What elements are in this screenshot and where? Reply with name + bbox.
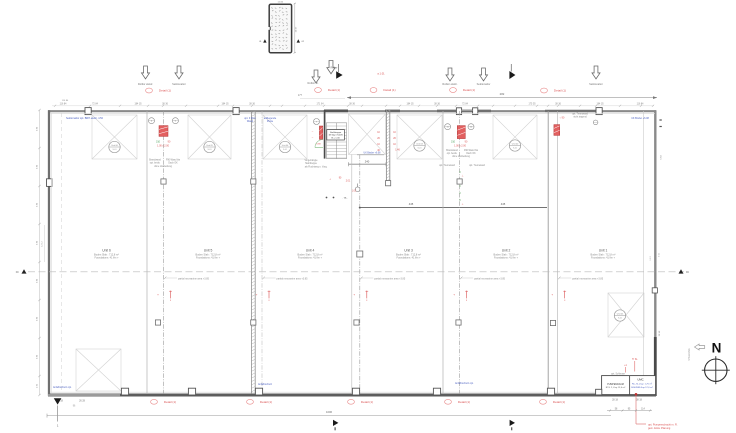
- right inner face line: [643, 111, 645, 394]
- entrance arrow A6: [479, 68, 487, 81]
- party wall B axis: [261, 111, 263, 394]
- level mark A: [157, 291, 172, 302]
- svg-text:S-01: S-01: [208, 149, 212, 151]
- door tag bottom: [445, 399, 470, 404]
- svg-text:nicht tragend: nicht tragend: [573, 116, 587, 119]
- door jamb T3: [596, 108, 602, 115]
- overall top dimension: [298, 92, 657, 99]
- door tag bottom: [151, 399, 176, 404]
- svg-text:Foundations: 41 lfm +: Foundations: 41 lfm +: [396, 257, 421, 260]
- svg-text:opt. beids.: opt. beids.: [447, 152, 458, 155]
- svg-text:Unit 3: Unit 3: [404, 249, 413, 253]
- door jamb plant room: [596, 389, 602, 395]
- stair note box: [327, 130, 345, 140]
- building outer wall bottom: [48, 393, 656, 396]
- door tag D1: [146, 88, 171, 93]
- svg-text:Unit 05: Unit 05: [206, 144, 213, 147]
- party wall A axis: [163, 111, 165, 394]
- top fine dim line with ticks: [52, 105, 654, 107]
- red ticks near core left: [312, 131, 314, 140]
- svg-text:28 18: 28 18: [612, 399, 618, 401]
- svg-text:38 36: 38 36: [249, 104, 255, 106]
- grid bubble A2: [172, 118, 178, 124]
- column B2: [188, 388, 195, 395]
- svg-text:Unit 6: Unit 6: [102, 249, 111, 253]
- svg-text:1.00 х 2.00: 1.00 х 2.00: [454, 144, 466, 147]
- column C low: [456, 320, 461, 325]
- window jamb right wall: [652, 288, 657, 293]
- svg-text:Rolltor el.: Rolltor el.: [308, 81, 319, 85]
- building outer wall left: [48, 110, 50, 396]
- svg-text:partial mezzanine area +3.85: partial mezzanine area +3.85: [474, 278, 506, 281]
- key plan dimension: [278, 2, 298, 54]
- red level marks plant: [624, 359, 638, 373]
- skylight box unit1: [608, 293, 644, 337]
- svg-text:38 18: 38 18: [636, 399, 642, 401]
- line below corebox: [357, 154, 384, 156]
- svg-text:Detail (1): Detail (1): [553, 400, 565, 404]
- svg-text:Rolltor elektr.: Rolltor elektr.: [442, 82, 457, 86]
- fire wall marker A: [159, 126, 168, 137]
- svg-text:Sektionaltor opt. BRH elektr.: Sektionaltor opt. BRH elektr. 4.50: [66, 117, 104, 120]
- svg-text:+: +: [157, 292, 159, 296]
- svg-text:Foundations: 41 lfm +: Foundations: 41 lfm +: [494, 257, 519, 260]
- svg-text:opt. Pumpenschacht m. R.: opt. Pumpenschacht m. R.: [648, 423, 678, 426]
- svg-text:Wand: Wand: [247, 120, 254, 123]
- svg-text:UMC: UMC: [637, 377, 643, 381]
- svg-text:72 84: 72 84: [462, 104, 468, 106]
- column B mid: [251, 179, 256, 184]
- svg-text:Dach OK: Dach OK: [168, 163, 178, 165]
- unit label Unit 4: [298, 249, 323, 260]
- svg-text:Rolltor: Rolltor: [331, 67, 338, 70]
- svg-text:171 64: 171 64: [316, 104, 324, 106]
- svg-text:Anfahrschutz: Anfahrschutz: [258, 383, 273, 386]
- svg-text:opt. Schleuse: opt. Schleuse: [611, 373, 626, 376]
- svg-text:S-01: S-01: [418, 148, 422, 150]
- grid bubble core: [314, 119, 320, 125]
- party wall core-south line: [351, 155, 353, 395]
- mezzanine note: [164, 277, 210, 281]
- dim text C: [451, 141, 468, 148]
- skylight box unit2: [493, 115, 537, 159]
- column B5: [433, 388, 440, 395]
- svg-text:116 84: 116 84: [60, 104, 68, 106]
- plant rooms outline: [602, 376, 656, 395]
- svg-text:1.46: 1.46: [395, 150, 400, 152]
- column B low: [251, 320, 256, 325]
- section marker 1 bottom-left: [54, 398, 62, 427]
- unit label Unit 3: [396, 249, 421, 260]
- dim text A: [156, 141, 171, 148]
- level mark C: [453, 291, 468, 302]
- svg-text:Detail (1): Detail (1): [164, 400, 176, 404]
- compass: [702, 356, 730, 384]
- column A mid: [161, 179, 166, 184]
- svg-text:Detail (1): Detail (1): [328, 88, 340, 92]
- key plan left marker: [259, 39, 267, 43]
- svg-text:116 84: 116 84: [637, 104, 645, 106]
- svg-text:26 28: 26 28: [79, 400, 85, 402]
- fire wall marker D: [554, 125, 560, 136]
- svg-text:S-01: S-01: [618, 318, 622, 320]
- svg-text:Dach OK: Dach OK: [466, 153, 476, 155]
- svg-text:29.37: 29.37: [296, 26, 298, 32]
- svg-text:partial mezzanine area +3.85: partial mezzanine area +3.85: [572, 278, 604, 281]
- top wall dark segment over core: [324, 110, 348, 113]
- wall D note: [572, 113, 589, 119]
- svg-text:⊥: ⊥: [329, 178, 331, 181]
- door tag D3b: [450, 88, 475, 93]
- party wall B hatched: [251, 111, 255, 394]
- svg-text:12.12: 12.12: [42, 240, 44, 246]
- svg-text:BGF/BRI-Kap 57,6 m²: BGF/BRI-Kap 57,6 m²: [631, 386, 653, 389]
- skylight box unit5: [188, 115, 231, 159]
- svg-text:Foundations: 41 lfm +: Foundations: 41 lfm +: [196, 257, 221, 260]
- core bottom dim: [349, 159, 387, 166]
- svg-text:Vorgehängte: Vorgehängte: [304, 159, 318, 162]
- svg-text:partial mezzanine area +3.85: partial mezzanine area +3.85: [277, 278, 309, 281]
- door tag bottom: [247, 399, 272, 404]
- centre line left marker: [16, 269, 27, 274]
- key plan right marker: [297, 39, 305, 43]
- column D low: [550, 320, 555, 325]
- svg-text:1.00 х 2.00: 1.00 х 2.00: [157, 144, 169, 147]
- left dimension column: [36, 109, 44, 396]
- svg-text:184 35: 184 35: [406, 104, 414, 106]
- red note core right: [393, 132, 400, 152]
- mezzanine note: [460, 277, 506, 281]
- top wall inner face: [50, 112, 655, 114]
- svg-text:Anfahrschutz opt.: Anfahrschutz opt.: [53, 386, 72, 389]
- svg-text:8: 8: [170, 300, 171, 302]
- door tag D3: [370, 88, 395, 93]
- svg-text:Sektionaltor: Sektionaltor: [477, 82, 491, 86]
- dark dots below core: [326, 197, 348, 200]
- right wall dark segment: [654, 337, 657, 396]
- door tag bottom: [540, 399, 565, 404]
- north key arrow: [695, 344, 705, 350]
- svg-text:opt. Trennwand: opt. Trennwand: [469, 164, 486, 167]
- fire door marker core: [319, 126, 322, 139]
- svg-text:+: +: [551, 292, 553, 296]
- section marker 1 bottom: [333, 420, 338, 431]
- top wall dark segment core-right: [385, 110, 400, 113]
- wall C lower note: [439, 164, 486, 167]
- svg-text:ohne Verkleidung: ohne Verkleidung: [452, 155, 470, 158]
- building outer wall right: [654, 110, 656, 396]
- svg-text:240: 240: [365, 159, 370, 163]
- right wall outer dims: [650, 120, 663, 336]
- svg-text:N: N: [712, 341, 722, 356]
- skylight box unit4: [263, 115, 307, 159]
- column core-south low: [354, 320, 359, 325]
- svg-text:12.66: 12.66: [278, 2, 284, 4]
- node circle below core: [355, 184, 360, 192]
- svg-text:⊥: ⊥: [461, 203, 463, 206]
- party wall core-south axis: [359, 155, 361, 395]
- svg-text:S-01: S-01: [283, 149, 287, 151]
- core left wall: [324, 110, 326, 159]
- mezzanine note: [262, 277, 308, 281]
- svg-text:Detail (1): Detail (1): [361, 400, 373, 404]
- svg-text:UK Binder +6.08: UK Binder +6.08: [364, 152, 382, 155]
- section marker 2 top: [509, 64, 515, 79]
- svg-text:· 75 ·: · 75 ·: [342, 197, 348, 200]
- svg-text:Detail (1): Detail (1): [159, 89, 171, 93]
- svg-text:ohne Verkleidung: ohne Verkleidung: [154, 165, 172, 168]
- svg-text:8: 8: [466, 300, 467, 302]
- svg-text:+: +: [353, 292, 355, 296]
- door tag bottom: [348, 399, 373, 404]
- level mark B: [256, 291, 271, 302]
- mezzanine edge line: [359, 202, 547, 208]
- bottom chain dims: [607, 408, 652, 411]
- svg-text:S-01: S-01: [113, 149, 117, 151]
- party wall D face: [557, 111, 559, 394]
- svg-text:Foundations: 41 lfm +: Foundations: 41 lfm +: [94, 257, 119, 260]
- svg-text:Unit 1: Unit 1: [599, 249, 608, 253]
- svg-text:Foundations: 41 lfm +: Foundations: 41 lfm +: [591, 257, 616, 260]
- svg-text:Detail (1): Detail (1): [463, 88, 475, 92]
- centre line: [28, 271, 684, 273]
- key plan outline: [268, 4, 292, 53]
- svg-text:UK Binder +6.08: UK Binder +6.08: [631, 117, 649, 120]
- mezzanine note: [558, 277, 604, 281]
- svg-text:72 84: 72 84: [92, 104, 98, 106]
- svg-text:Anfahrschutz opt.: Anfahrschutz opt.: [455, 382, 474, 385]
- svg-text:Pfette: Pfette: [267, 120, 274, 123]
- bottom wall inner face: [50, 391, 655, 393]
- svg-text:Stahltreppe: Stahltreppe: [305, 162, 317, 165]
- overall bottom dimension: [47, 410, 611, 418]
- door tag D2: [315, 88, 340, 93]
- core note left: [304, 159, 327, 168]
- svg-text:Unit 03: Unit 03: [416, 142, 423, 145]
- svg-text:PUMPENRAUM: PUMPENRAUM: [607, 383, 624, 386]
- red note stairwell left: [377, 132, 380, 152]
- party wall C axis: [459, 111, 461, 394]
- svg-text:gem. Entw. Planung: gem. Entw. Planung: [648, 427, 671, 430]
- grid bubble A1: [149, 118, 155, 124]
- level mark core-south: [353, 291, 368, 302]
- svg-text:177: 177: [298, 94, 303, 97]
- column B3: [255, 388, 262, 395]
- svg-text:8: 8: [366, 300, 367, 302]
- column B6: [547, 388, 554, 395]
- svg-text:Stahltreppe: Stahltreppe: [330, 131, 342, 134]
- svg-text:18 Stg 17,6/26: 18 Stg 17,6/26: [328, 134, 343, 137]
- red reference leader: [635, 393, 678, 430]
- svg-text:184 35: 184 35: [596, 104, 604, 106]
- smoke vent box bottom-left: [76, 349, 121, 391]
- svg-text:8: 8: [269, 300, 270, 302]
- svg-text:184 35: 184 35: [134, 104, 142, 106]
- party wall C line: [442, 111, 444, 394]
- door swing C marks: [458, 172, 464, 206]
- top tick dimensions: [60, 104, 645, 106]
- mezzanine note: [360, 277, 406, 281]
- svg-text:Detail (1): Detail (1): [383, 88, 395, 92]
- svg-text:opt. Trennwand: opt. Trennwand: [439, 164, 456, 167]
- unit label Unit 5: [196, 249, 221, 260]
- svg-text:Unit 06: Unit 06: [111, 144, 118, 147]
- entrance arrow A4: [327, 61, 335, 74]
- door jamb T1: [85, 108, 91, 115]
- svg-text:2.01: 2.01: [346, 181, 351, 183]
- stair flight: [326, 123, 346, 159]
- svg-text:Detail (1): Detail (1): [260, 400, 272, 404]
- plant room right label UMC: [631, 377, 653, 388]
- svg-text:Unit 2: Unit 2: [502, 249, 511, 253]
- svg-text:+: +: [453, 292, 455, 296]
- svg-text:310: 310: [156, 141, 161, 144]
- svg-text:Unit 5: Unit 5: [204, 249, 213, 253]
- svg-text:8: 8: [564, 300, 565, 302]
- svg-text:Foundations: 41 lfm +: Foundations: 41 lfm +: [298, 257, 323, 260]
- svg-text:partial mezzanine area +3.85: partial mezzanine area +3.85: [374, 278, 406, 281]
- svg-text:38 98: 38 98: [659, 330, 661, 336]
- svg-text:Detail (1): Detail (1): [458, 400, 470, 404]
- building outer wall top: [48, 110, 656, 112]
- centre line right marker: [679, 269, 690, 274]
- door jamb B1: [121, 388, 128, 395]
- entrance arrow A7: [592, 66, 600, 79]
- plant room left label: [606, 383, 626, 389]
- svg-text:F90 Wand bis: F90 Wand bis: [464, 150, 479, 152]
- svg-text:a 1.01: a 1.01: [377, 72, 385, 76]
- wall C note: [446, 149, 479, 158]
- svg-text:Unit 01: Unit 01: [617, 312, 624, 315]
- svg-text:Brandwand: Brandwand: [446, 149, 458, 152]
- door jamb left wall: [47, 179, 52, 187]
- svg-text:445: 445: [409, 202, 414, 206]
- svg-text:opt. Trennwand: opt. Trennwand: [572, 113, 589, 116]
- door swing core: [315, 140, 323, 148]
- grid bubble D: [593, 120, 598, 125]
- svg-text:38 36: 38 36: [555, 104, 561, 106]
- svg-text:·: ·: [458, 187, 459, 191]
- svg-text:1006: 1006: [326, 410, 332, 414]
- svg-text:38 36: 38 36: [349, 104, 355, 106]
- section marker 1 top: [336, 64, 342, 79]
- svg-text:116 84: 116 84: [62, 100, 69, 102]
- entrance arrow A2: [175, 66, 183, 79]
- grid bubble C2: [468, 124, 474, 130]
- svg-text:S-01: S-01: [513, 148, 517, 150]
- grid bubble C1: [445, 124, 451, 130]
- svg-text:38 36: 38 36: [162, 104, 168, 106]
- svg-text:Rü.-St.-Kap: 1,75 m²: Rü.-St.-Kap: 1,75 m²: [632, 383, 652, 386]
- svg-text:310: 310: [451, 141, 456, 144]
- svg-text:Rolltor elektr.: Rolltor elektr.: [138, 82, 153, 86]
- svg-text:STELLUNG: STELLUNG: [689, 348, 691, 360]
- door tag D4: [541, 88, 566, 93]
- svg-text:Detail (1): Detail (1): [554, 89, 566, 93]
- level mark D: [551, 291, 566, 302]
- svg-text:+: +: [256, 292, 258, 296]
- door jamb T2: [233, 108, 239, 115]
- column B4: [352, 388, 359, 395]
- skylight box core: [349, 114, 386, 155]
- svg-text:BTG 2, Kap 13,6 m²: BTG 2, Kap 13,6 m²: [606, 386, 626, 389]
- svg-text:Brandwand: Brandwand: [149, 159, 161, 162]
- party wall A line: [146, 111, 148, 394]
- column core-right-wall end: [386, 181, 391, 186]
- entrance arrow A3: [312, 70, 320, 83]
- column core-south mid: [357, 251, 363, 257]
- svg-text:opt. beids.: opt. beids.: [150, 162, 161, 165]
- left inner dashed line: [61, 113, 63, 393]
- svg-text:⊥: ⊥: [461, 175, 463, 178]
- party wall D line: [547, 111, 549, 394]
- red marks below core: [329, 178, 357, 193]
- top wall dark segment unit3: [437, 110, 491, 113]
- svg-text:282: 282: [500, 92, 505, 96]
- svg-text:Sektionaltor: Sektionaltor: [172, 82, 186, 86]
- svg-text:38 36: 38 36: [434, 104, 440, 106]
- svg-text:TI SL: TI SL: [632, 359, 638, 361]
- entrance arrow A5: [446, 68, 454, 81]
- svg-text:Sektionaltor: Sektionaltor: [589, 82, 603, 86]
- skylight box unit3: [397, 115, 442, 159]
- svg-text:F90 Wand bis: F90 Wand bis: [166, 160, 181, 162]
- svg-text:als Fluchtweg n. Vorg.: als Fluchtweg n. Vorg.: [305, 165, 328, 168]
- svg-text:1.01: 1.01: [352, 191, 357, 193]
- bottom wall light segment left: [48, 394, 120, 396]
- svg-text:Unit 4: Unit 4: [306, 249, 315, 253]
- top wall dark segment unit1: [545, 110, 600, 112]
- svg-text:Unit 04: Unit 04: [282, 144, 289, 147]
- unit label Unit 6: [94, 249, 119, 260]
- svg-text:partial mezzanine area +3.85: partial mezzanine area +3.85: [178, 278, 210, 281]
- unit label Unit 2: [494, 249, 519, 260]
- skylight box unit6: [92, 115, 137, 159]
- fire wall marker C: [457, 126, 465, 139]
- bottom left corner dims: [57, 400, 85, 407]
- svg-text:Unit 02: Unit 02: [512, 142, 519, 145]
- left wall inner face: [51, 113, 53, 393]
- bottom right small dims: [612, 399, 642, 401]
- svg-text:175 55: 175 55: [528, 104, 536, 106]
- double door jambs T4: [456, 108, 477, 115]
- unit label Unit 1: [591, 249, 616, 260]
- entrance arrow A1: [141, 66, 149, 79]
- left outer ticks: [62, 100, 69, 102]
- column A low: [155, 320, 160, 325]
- blue note B1: [244, 117, 256, 123]
- svg-text:445: 445: [501, 202, 506, 206]
- blue note B2: [264, 117, 277, 123]
- wall A note: [149, 159, 181, 168]
- svg-text:B = 1.00: B = 1.00: [331, 137, 340, 139]
- svg-text:≈ 90: ≈ 90: [560, 116, 565, 119]
- svg-text:184 35: 184 35: [221, 104, 229, 106]
- column C mid: [457, 179, 462, 184]
- section marker 2 bottom: [510, 420, 515, 431]
- core right wall hatched: [386, 110, 389, 184]
